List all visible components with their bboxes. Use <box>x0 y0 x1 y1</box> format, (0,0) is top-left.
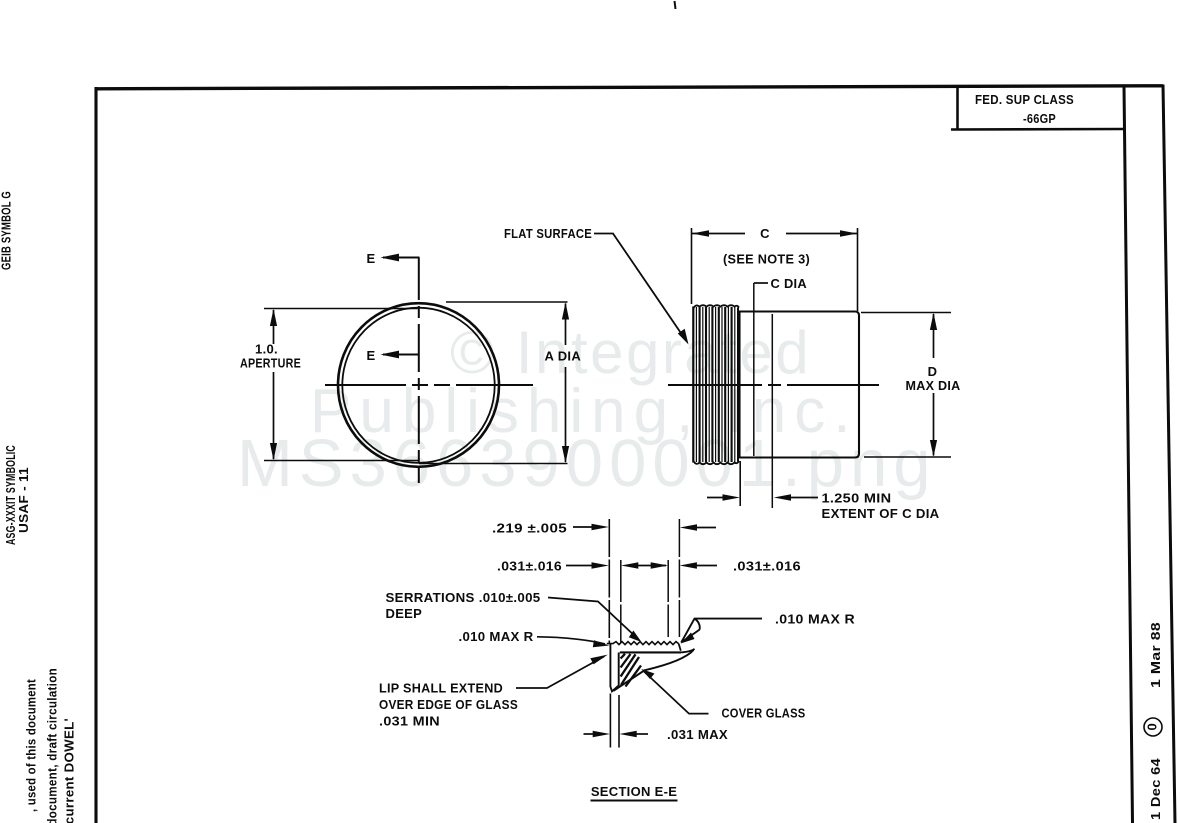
svg-text:.010 MAX R: .010 MAX R <box>775 612 855 627</box>
strip bottom edge <box>620 651 681 653</box>
svg-text:C DIA: C DIA <box>771 276 808 291</box>
svg-text:E: E <box>367 348 376 363</box>
svg-text:FED. SUP CLASS: FED. SUP CLASS <box>975 92 1074 107</box>
A DIA dimension line <box>565 304 567 463</box>
glass surface curve <box>614 650 694 691</box>
svg-text:.010 MAX R: .010 MAX R <box>459 629 534 644</box>
aperture dimension line <box>273 310 275 459</box>
thread section outline <box>694 305 740 308</box>
svg-text:A DIA: A DIA <box>545 349 582 364</box>
svg-text:.031±.016: .031±.016 <box>497 559 562 574</box>
C DIA label and leader <box>754 282 768 284</box>
svg-text:© Integrated: © Integrated <box>450 319 811 386</box>
svg-text:1.250 MIN: 1.250 MIN <box>822 491 892 506</box>
svg-text:.219 ±.005: .219 ±.005 <box>492 521 567 536</box>
FED SUP CLASS box <box>951 88 1124 130</box>
svg-text:0: 0 <box>1145 723 1160 731</box>
svg-text:FLAT SURFACE: FLAT SURFACE <box>504 226 592 241</box>
aperture dimension extension lines <box>264 308 418 310</box>
1.250 MIN dimension arrows <box>707 497 818 499</box>
.010 MAX R left leader <box>537 637 605 644</box>
C DIA extent inner line <box>771 314 773 508</box>
COVER GLASS leader <box>644 672 709 714</box>
body outline <box>740 312 860 458</box>
svg-text:GEIB SYMBOL G: GEIB SYMBOL G <box>0 191 14 270</box>
serrated strip top (serrations) <box>607 642 679 645</box>
svg-text:USAF - 11: USAF - 11 <box>16 467 31 533</box>
top tick <box>675 1 676 9</box>
svg-text:SECTION E-E: SECTION E-E <box>591 784 677 799</box>
svg-text:EXTENT OF C DIA: EXTENT OF C DIA <box>822 506 940 521</box>
lens outer circle <box>338 303 499 467</box>
svg-text:COVER GLASS: COVER GLASS <box>722 706 806 721</box>
E arrow top <box>383 257 420 259</box>
extension line left outer (lip) <box>608 519 610 643</box>
D MAX DIA extension lines <box>861 312 951 314</box>
top border <box>95 86 1163 89</box>
svg-text:E: E <box>367 251 376 266</box>
serrations leader <box>548 598 638 639</box>
FLAT SURFACE leader <box>594 234 686 341</box>
svg-text:1 Mar 88: 1 Mar 88 <box>1148 622 1163 688</box>
svg-text:SERRATIONS .010±.005: SERRATIONS .010±.005 <box>386 590 541 605</box>
C dimension extension lines <box>691 228 693 304</box>
right inner border <box>1124 86 1133 823</box>
svg-text:this document, draft circulati: this document, draft circulation <box>45 668 60 823</box>
1.250 MIN extension line <box>739 461 741 506</box>
extension line right inner <box>667 560 669 637</box>
lens inner circle <box>342 308 494 463</box>
cover glass hatching <box>621 654 641 687</box>
svg-text:.031 MIN: .031 MIN <box>379 714 440 729</box>
lip leader <box>516 657 604 689</box>
E arrow middle <box>383 354 420 356</box>
left border <box>94 87 97 823</box>
horizontal centerline <box>325 384 533 386</box>
.010 MAX R right leader with open arrowhead <box>681 619 762 643</box>
strip right edge <box>679 644 681 651</box>
thread hatching <box>696 307 734 462</box>
svg-text:C: C <box>760 226 770 241</box>
section cut line E-E vertical <box>418 258 420 484</box>
svg-text:APERTURE: APERTURE <box>240 356 301 371</box>
lip outline <box>610 644 618 692</box>
svg-text:-66GP: -66GP <box>1023 111 1056 126</box>
C dimension line <box>692 233 857 235</box>
svg-text:this current DOWEL': this current DOWEL' <box>62 718 77 823</box>
extension line right outer <box>678 519 680 637</box>
side centerline <box>668 384 879 386</box>
svg-text:(SEE NOTE 3): (SEE NOTE 3) <box>723 252 810 267</box>
svg-text:1 Dec 64: 1 Dec 64 <box>1148 757 1163 820</box>
.031 MAX arrows <box>584 733 597 735</box>
A DIA extension lines <box>446 301 568 303</box>
svg-text:DEEP: DEEP <box>386 606 423 621</box>
svg-text:.031 MAX: .031 MAX <box>667 727 728 742</box>
svg-text:1.0.: 1.0. <box>255 342 278 357</box>
svg-text:LIP SHALL EXTEND: LIP SHALL EXTEND <box>379 681 503 696</box>
right outer border <box>1163 85 1175 823</box>
C DIA inner line <box>753 283 755 456</box>
rim hook curve <box>681 649 695 653</box>
lip extension lines below <box>609 694 611 748</box>
svg-text:, used of this document: , used of this document <box>24 679 39 812</box>
svg-text:OVER EDGE OF GLASS: OVER EDGE OF GLASS <box>379 697 518 712</box>
D MAX DIA dimension line <box>933 314 935 456</box>
svg-text:.031±.016: .031±.016 <box>733 559 801 574</box>
extension line left inner <box>620 560 622 643</box>
svg-text:MAX DIA: MAX DIA <box>906 378 961 393</box>
svg-text:D: D <box>928 364 938 379</box>
